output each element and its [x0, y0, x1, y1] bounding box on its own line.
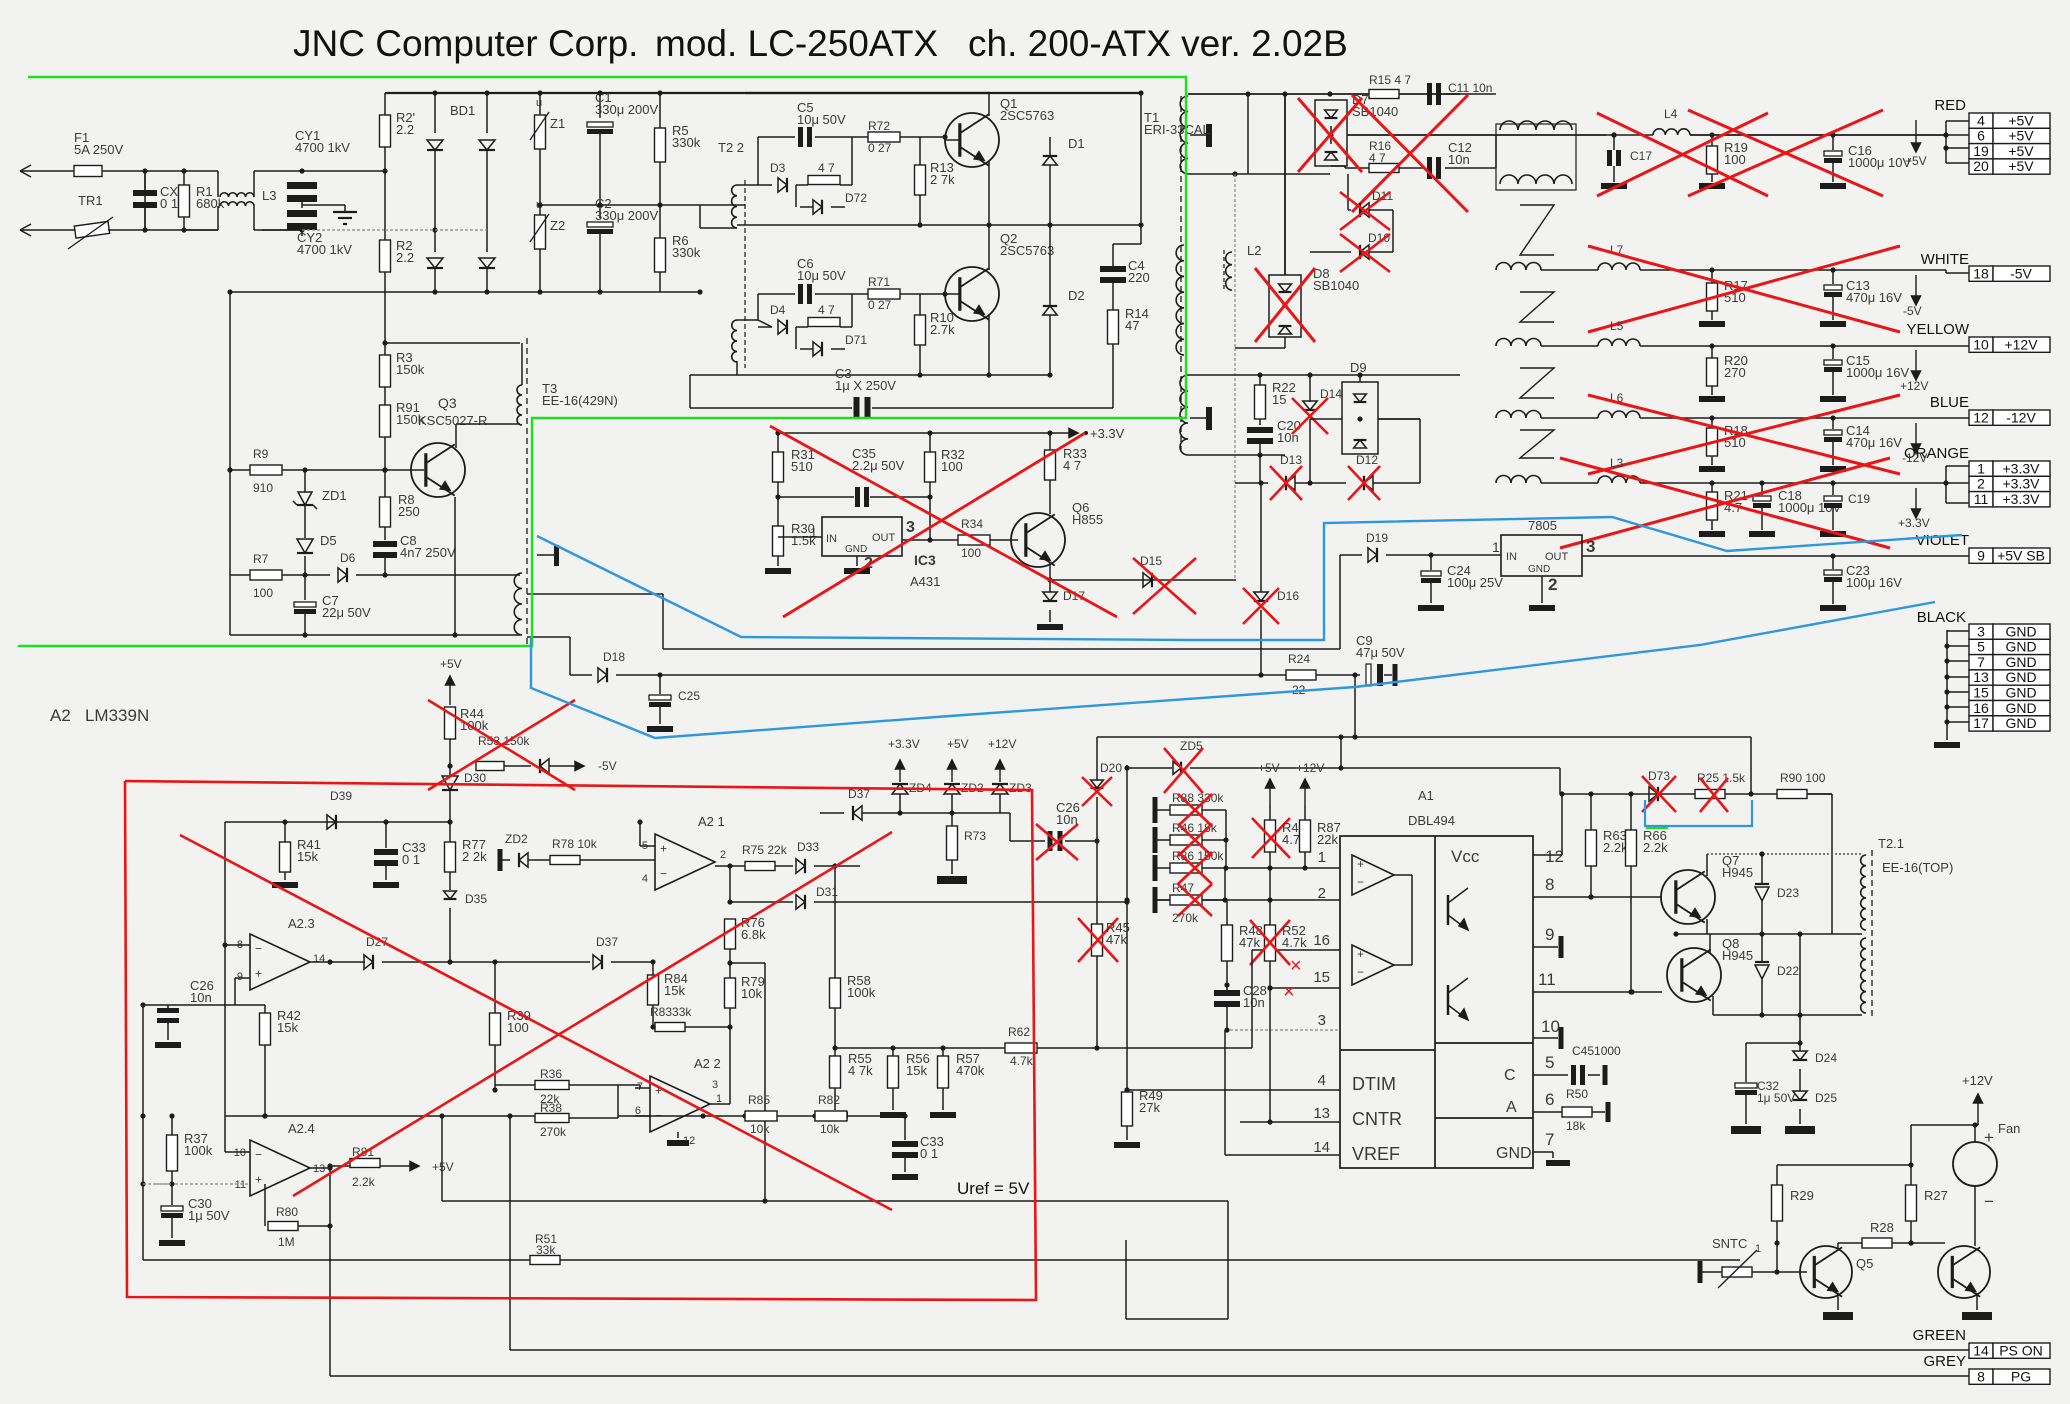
svg-text:8: 8 [1545, 875, 1554, 894]
svg-text:Fan: Fan [1998, 1121, 2020, 1136]
svg-text:CNTR: CNTR [1352, 1109, 1402, 1129]
svg-text:×: × [1283, 981, 1295, 1003]
svg-text:270: 270 [1724, 365, 1746, 380]
svg-text:9: 9 [1977, 547, 1985, 563]
svg-text:510: 510 [791, 459, 813, 474]
svg-text:+5V: +5V [2008, 112, 2034, 128]
svg-text:C11 10n: C11 10n [1448, 81, 1492, 95]
svg-text:DBL494: DBL494 [1408, 813, 1455, 828]
svg-text:R36: R36 [540, 1067, 562, 1081]
svg-text:D18: D18 [603, 650, 625, 664]
svg-text:100: 100 [253, 586, 273, 600]
svg-text:×: × [1290, 955, 1302, 977]
svg-text:D35: D35 [465, 892, 487, 906]
svg-text:R50: R50 [1566, 1087, 1588, 1101]
svg-text:PG: PG [2011, 1368, 2031, 1384]
svg-text:−: − [255, 1147, 262, 1161]
svg-text:D33: D33 [797, 840, 819, 854]
svg-text:2SC5763: 2SC5763 [1000, 108, 1054, 123]
svg-text:1: 1 [1318, 849, 1326, 866]
svg-text:u: u [536, 97, 542, 109]
svg-text:-5V: -5V [598, 759, 617, 773]
svg-text:JNC Computer Corp.: JNC Computer Corp. [293, 23, 638, 64]
svg-text:13: 13 [1313, 1105, 1330, 1122]
svg-text:47k: 47k [1239, 935, 1260, 950]
svg-text:R73: R73 [964, 829, 986, 843]
svg-text:L3: L3 [262, 188, 276, 203]
svg-text:2.2μ 50V: 2.2μ 50V [852, 458, 905, 473]
svg-text:R78 10k: R78 10k [552, 837, 598, 851]
svg-text:H855: H855 [1072, 512, 1103, 527]
svg-text:T2 2: T2 2 [718, 140, 744, 155]
svg-text:TR1: TR1 [78, 193, 103, 208]
svg-text:A431: A431 [910, 574, 940, 589]
svg-text:R86 150k: R86 150k [1172, 849, 1224, 863]
svg-text:OUT: OUT [872, 532, 896, 544]
svg-text:-5V: -5V [2010, 265, 2032, 281]
svg-text:47: 47 [1125, 318, 1139, 333]
svg-text:D12: D12 [1356, 453, 1378, 467]
svg-text:11: 11 [235, 1179, 246, 1191]
svg-text:10n: 10n [190, 990, 212, 1005]
svg-text:D39: D39 [330, 789, 352, 803]
svg-text:1: 1 [1492, 539, 1500, 555]
svg-text:R28: R28 [1870, 1220, 1894, 1235]
svg-text:GND: GND [2005, 715, 2036, 731]
svg-text:14: 14 [313, 953, 325, 965]
svg-text:+: + [660, 841, 667, 855]
svg-text:12: 12 [1973, 409, 1989, 425]
svg-text:D5: D5 [320, 533, 337, 548]
svg-text:7: 7 [1977, 654, 1985, 670]
svg-text:+5V SB: +5V SB [1997, 547, 2045, 563]
svg-text:R29: R29 [1790, 1188, 1814, 1203]
svg-text:EE-16(TOP): EE-16(TOP) [1882, 860, 1953, 875]
svg-text:+: + [255, 1173, 262, 1187]
svg-text:11: 11 [1538, 970, 1556, 989]
svg-text:BD1: BD1 [450, 103, 475, 118]
svg-text:R90 100: R90 100 [1780, 771, 1826, 785]
svg-text:14: 14 [1313, 1139, 1330, 1156]
svg-text:15k: 15k [664, 983, 685, 998]
svg-text:D17: D17 [1063, 589, 1085, 603]
svg-text:+5V: +5V [2008, 128, 2034, 144]
svg-text:470μ 16V: 470μ 16V [1846, 435, 1902, 450]
svg-text:+3.3V: +3.3V [888, 737, 920, 751]
svg-text:10: 10 [1541, 1017, 1560, 1036]
svg-text:4 7k: 4 7k [848, 1063, 873, 1078]
svg-text:100: 100 [941, 459, 963, 474]
svg-text:4: 4 [1977, 112, 1985, 128]
svg-text:L3: L3 [1610, 456, 1624, 470]
svg-text:1μ 50V: 1μ 50V [1757, 1091, 1795, 1105]
svg-text:D2: D2 [1068, 288, 1085, 303]
svg-text:2SC5763: 2SC5763 [1000, 243, 1054, 258]
svg-text:10k: 10k [820, 1122, 840, 1136]
svg-text:ch. 200-ATX ver. 2.02B: ch. 200-ATX ver. 2.02B [968, 23, 1348, 64]
svg-text:R72: R72 [868, 119, 890, 133]
svg-text:4n7 250V: 4n7 250V [400, 545, 456, 560]
svg-text:10: 10 [1973, 336, 1989, 352]
svg-text:A2 2: A2 2 [694, 1056, 721, 1071]
svg-text:7805: 7805 [1528, 518, 1557, 533]
svg-text:2 2k: 2 2k [462, 849, 487, 864]
svg-text:330μ 200V: 330μ 200V [595, 102, 658, 117]
svg-text:22k: 22k [1317, 832, 1338, 847]
svg-text:15k: 15k [297, 849, 318, 864]
svg-text:RED: RED [1934, 97, 1966, 114]
svg-text:C451000: C451000 [1572, 1044, 1621, 1058]
svg-text:10: 10 [234, 1147, 246, 1159]
svg-text:WHITE: WHITE [1921, 251, 1969, 268]
svg-text:+3.3V: +3.3V [1898, 516, 1930, 530]
svg-text:YELLOW: YELLOW [1906, 321, 1969, 338]
svg-text:−: − [1357, 965, 1364, 979]
svg-text:5: 5 [1545, 1053, 1554, 1072]
svg-text:GND: GND [2005, 669, 2036, 685]
svg-text:4 7: 4 7 [818, 303, 835, 317]
svg-text:+12V: +12V [2004, 336, 2038, 352]
svg-text:9: 9 [1545, 925, 1554, 944]
svg-text:R8333k: R8333k [650, 1005, 692, 1019]
svg-text:GREY: GREY [1923, 1353, 1966, 1370]
svg-text:16: 16 [1973, 700, 1989, 716]
svg-text:10μ 50V: 10μ 50V [797, 112, 846, 127]
svg-text:6.8k: 6.8k [741, 927, 766, 942]
svg-text:A: A [1506, 1099, 1517, 1116]
svg-text:KSC5027-R: KSC5027-R [418, 413, 487, 428]
svg-text:D22: D22 [1777, 964, 1799, 978]
svg-text:0 27: 0 27 [868, 141, 892, 155]
svg-text:2.2k: 2.2k [1603, 840, 1628, 855]
svg-text:1000μ 16V: 1000μ 16V [1846, 365, 1909, 380]
svg-text:+3.3V: +3.3V [2003, 476, 2041, 492]
svg-text:2: 2 [1548, 575, 1557, 594]
svg-text:470μ 16V: 470μ 16V [1846, 290, 1902, 305]
svg-text:4700 1kV: 4700 1kV [297, 242, 352, 257]
svg-text:GND: GND [2005, 654, 2036, 670]
svg-text:Vcc: Vcc [1451, 847, 1480, 866]
svg-text:8: 8 [1977, 1368, 1985, 1384]
svg-text:10k: 10k [741, 986, 762, 1001]
svg-text:100k: 100k [847, 985, 876, 1000]
svg-text:D73: D73 [1648, 769, 1670, 783]
svg-text:6: 6 [1977, 128, 1985, 144]
svg-text:+3.3V: +3.3V [2003, 491, 2041, 507]
svg-text:4 7: 4 7 [818, 161, 835, 175]
svg-text:33k: 33k [536, 1243, 556, 1257]
svg-text:C19: C19 [1848, 492, 1870, 506]
svg-text:Z2: Z2 [550, 218, 565, 233]
svg-text:D37: D37 [596, 935, 618, 949]
svg-text:470k: 470k [956, 1063, 985, 1078]
svg-text:9: 9 [237, 971, 243, 983]
svg-text:27k: 27k [1139, 1100, 1160, 1115]
svg-text:A2.3: A2.3 [288, 916, 315, 931]
svg-text:2.2: 2.2 [396, 250, 414, 265]
svg-text:R88 330k: R88 330k [1172, 791, 1224, 805]
svg-text:2: 2 [1977, 476, 1985, 492]
svg-text:47μ 50V: 47μ 50V [1356, 645, 1405, 660]
svg-text:D25: D25 [1815, 1091, 1837, 1105]
svg-text:15: 15 [1973, 685, 1989, 701]
svg-text:R24: R24 [1288, 652, 1310, 666]
svg-text:1M: 1M [278, 1235, 295, 1249]
svg-text:10n: 10n [1243, 995, 1265, 1010]
svg-text:15: 15 [1272, 392, 1286, 407]
svg-text:A1: A1 [1418, 788, 1434, 803]
svg-text:330k: 330k [672, 245, 701, 260]
svg-text:D16: D16 [1277, 589, 1299, 603]
svg-text:2.2: 2.2 [396, 122, 414, 137]
svg-text:+3.3V: +3.3V [2003, 460, 2041, 476]
svg-text:15: 15 [1313, 969, 1330, 986]
svg-text:D1: D1 [1068, 136, 1085, 151]
svg-text:−: − [660, 867, 667, 881]
svg-text:D14: D14 [1320, 387, 1342, 401]
svg-text:A2 1: A2 1 [698, 814, 725, 829]
svg-text:100: 100 [1724, 152, 1746, 167]
svg-text:4: 4 [642, 873, 648, 885]
svg-text:+12V: +12V [1962, 1073, 1993, 1088]
svg-text:3: 3 [712, 1079, 718, 1091]
svg-text:5A 250V: 5A 250V [74, 142, 123, 157]
svg-text:C25: C25 [678, 689, 700, 703]
svg-text:IN: IN [1506, 551, 1517, 563]
svg-text:2.2k: 2.2k [1643, 840, 1668, 855]
svg-text:SB1040: SB1040 [1313, 278, 1359, 293]
svg-text:GREEN: GREEN [1913, 1327, 1966, 1344]
svg-text:L4: L4 [1664, 107, 1678, 121]
svg-text:D6: D6 [340, 551, 356, 565]
svg-text:0 1: 0 1 [920, 1146, 938, 1161]
svg-text:220: 220 [1128, 270, 1150, 285]
svg-text:270k: 270k [540, 1125, 567, 1139]
svg-text:D24: D24 [1815, 1051, 1837, 1065]
svg-text:BLUE: BLUE [1930, 394, 1969, 411]
svg-text:−: − [255, 941, 262, 955]
svg-text:GND: GND [2005, 623, 2036, 639]
svg-text:16: 16 [1313, 932, 1330, 949]
svg-text:R80: R80 [276, 1205, 298, 1219]
svg-text:19: 19 [1973, 143, 1989, 159]
svg-text:D23: D23 [1777, 886, 1799, 900]
svg-text:T2.1: T2.1 [1878, 836, 1904, 851]
svg-text:150k: 150k [396, 362, 425, 377]
svg-text:11: 11 [1974, 491, 1989, 507]
svg-text:10n: 10n [1448, 152, 1470, 167]
svg-text:+5V: +5V [2008, 158, 2034, 174]
svg-text:+5V: +5V [1258, 761, 1280, 775]
svg-text:250: 250 [398, 504, 420, 519]
svg-text:−: − [1357, 875, 1364, 889]
svg-text:0 27: 0 27 [868, 298, 892, 312]
svg-text:+5V: +5V [440, 657, 462, 671]
svg-text:+: + [1984, 1128, 1994, 1147]
svg-text:10n: 10n [1056, 812, 1078, 827]
svg-text:R82: R82 [818, 1093, 840, 1107]
svg-text:H945: H945 [1722, 865, 1753, 880]
svg-text:100: 100 [961, 546, 981, 560]
svg-text:+5V: +5V [432, 1160, 454, 1174]
svg-text:Q5: Q5 [1856, 1256, 1873, 1271]
svg-text:100μ 16V: 100μ 16V [1846, 575, 1902, 590]
svg-text:13: 13 [1973, 669, 1989, 685]
svg-text:R7: R7 [253, 552, 269, 566]
svg-text:12: 12 [1545, 847, 1564, 866]
svg-text:4 7: 4 7 [1063, 458, 1081, 473]
svg-text:2.2k: 2.2k [352, 1175, 376, 1189]
svg-text:100: 100 [507, 1020, 529, 1035]
svg-text:17: 17 [1973, 715, 1989, 731]
svg-text:ZD2: ZD2 [505, 832, 528, 846]
svg-text:GND: GND [1528, 564, 1550, 575]
svg-text:7: 7 [1545, 1130, 1554, 1149]
svg-text:100k: 100k [460, 718, 489, 733]
svg-text:+5V: +5V [2008, 143, 2034, 159]
svg-text:Z1: Z1 [550, 116, 565, 131]
svg-text:H945: H945 [1722, 948, 1753, 963]
svg-text:ZD1: ZD1 [322, 488, 347, 503]
svg-text:1μ X 250V: 1μ X 250V [835, 378, 896, 393]
svg-text:2: 2 [720, 849, 726, 861]
svg-text:22μ 50V: 22μ 50V [322, 605, 371, 620]
svg-text:14: 14 [1973, 1342, 1989, 1358]
svg-text:1: 1 [716, 1093, 722, 1105]
svg-text:R15 4 7: R15 4 7 [1369, 73, 1411, 87]
svg-text:C17: C17 [1630, 149, 1652, 163]
svg-text:−: − [1984, 1192, 1994, 1211]
svg-text:3: 3 [1318, 1012, 1326, 1029]
svg-text:270k: 270k [1172, 911, 1199, 925]
svg-text:1μ 50V: 1μ 50V [188, 1208, 230, 1223]
svg-text:4.7k: 4.7k [1282, 935, 1307, 950]
svg-text:GND: GND [2005, 685, 2036, 701]
svg-text:D19: D19 [1366, 531, 1388, 545]
svg-text:18k: 18k [1566, 1119, 1586, 1133]
svg-text:100μ 25V: 100μ 25V [1447, 575, 1503, 590]
svg-text:ERI-33CAL: ERI-33CAL [1144, 122, 1210, 137]
svg-text:+5V: +5V [1905, 154, 1927, 168]
svg-text:2 7k: 2 7k [930, 172, 955, 187]
svg-text:OUT: OUT [1545, 551, 1569, 563]
svg-text:330μ 200V: 330μ 200V [595, 208, 658, 223]
svg-text:IC3: IC3 [914, 552, 936, 568]
svg-text:Q3: Q3 [438, 395, 457, 411]
svg-text:D3: D3 [770, 161, 786, 175]
svg-text:10μ 50V: 10μ 50V [797, 268, 846, 283]
svg-text:+12V: +12V [1296, 761, 1324, 775]
svg-text:GND: GND [2005, 639, 2036, 655]
svg-text:15k: 15k [906, 1063, 927, 1078]
svg-text:VREF: VREF [1352, 1144, 1400, 1164]
svg-text:20: 20 [1973, 158, 1989, 174]
svg-text:4.7k: 4.7k [1010, 1054, 1034, 1068]
svg-text:GND: GND [1496, 1145, 1532, 1162]
svg-text:330k: 330k [672, 135, 701, 150]
svg-text:0 1: 0 1 [402, 852, 420, 867]
svg-text:+: + [1357, 947, 1364, 961]
svg-text:D71: D71 [845, 333, 867, 347]
svg-text:EE-16(429N): EE-16(429N) [542, 393, 618, 408]
svg-text:GND: GND [2005, 700, 2036, 716]
svg-text:SNTC: SNTC [1712, 1236, 1747, 1251]
svg-text:D4: D4 [770, 303, 786, 317]
svg-text:ZD2: ZD2 [961, 781, 984, 795]
svg-text:5: 5 [1977, 639, 1985, 655]
svg-text:R85: R85 [748, 1093, 770, 1107]
svg-text:3: 3 [1977, 623, 1985, 639]
svg-text:R75 22k: R75 22k [742, 843, 788, 857]
svg-text:47k: 47k [1106, 932, 1127, 947]
svg-text:D30: D30 [464, 771, 486, 785]
svg-text:R9: R9 [253, 447, 269, 461]
svg-text:IN: IN [826, 533, 837, 545]
svg-text:+5V: +5V [947, 737, 969, 751]
svg-text:D13: D13 [1280, 453, 1302, 467]
svg-text:6: 6 [1545, 1090, 1554, 1109]
svg-text:L2: L2 [1247, 243, 1261, 258]
svg-text:+12V: +12V [1900, 379, 1928, 393]
svg-text:+12V: +12V [988, 737, 1016, 751]
svg-text:L5: L5 [1610, 319, 1624, 333]
svg-text:-5V: -5V [1903, 304, 1922, 318]
svg-text:4: 4 [1318, 1072, 1326, 1089]
svg-text:3: 3 [1586, 537, 1595, 556]
svg-text:3: 3 [906, 519, 915, 536]
svg-text:Uref = 5V: Uref = 5V [957, 1179, 1030, 1198]
svg-text:-12V: -12V [2006, 409, 2036, 425]
svg-text:+3.3V: +3.3V [1090, 426, 1125, 441]
svg-text:0 1: 0 1 [160, 196, 178, 211]
svg-text:ZD3: ZD3 [1009, 781, 1032, 795]
svg-text:100k: 100k [184, 1143, 213, 1158]
svg-text:1: 1 [1755, 1243, 1761, 1255]
svg-text:PS ON: PS ON [1999, 1342, 2043, 1358]
svg-text:R62: R62 [1008, 1025, 1030, 1039]
svg-text:D20: D20 [1100, 761, 1122, 775]
svg-text:15k: 15k [277, 1020, 298, 1035]
svg-text:1000μ 10V: 1000μ 10V [1848, 155, 1911, 170]
svg-text:A2.4: A2.4 [288, 1121, 315, 1136]
svg-text:A2 LM339N: A2 LM339N [50, 706, 149, 725]
svg-text:+: + [255, 967, 262, 981]
svg-text:2.7k: 2.7k [930, 322, 955, 337]
svg-text:D9: D9 [1350, 360, 1367, 375]
svg-text:GND: GND [845, 544, 867, 555]
svg-text:18: 18 [1973, 265, 1989, 281]
svg-text:1: 1 [1977, 460, 1985, 476]
svg-text:+: + [1357, 857, 1364, 871]
svg-text:13: 13 [313, 1163, 325, 1175]
svg-text:4700 1kV: 4700 1kV [295, 140, 350, 155]
svg-text:C: C [1504, 1067, 1516, 1084]
svg-text:910: 910 [253, 481, 273, 495]
svg-text:DTIM: DTIM [1352, 1074, 1396, 1094]
svg-text:R27: R27 [1924, 1188, 1948, 1203]
svg-text:6: 6 [635, 1105, 641, 1117]
svg-text:D72: D72 [845, 191, 867, 205]
svg-text:4 7: 4 7 [1369, 151, 1386, 165]
svg-text:-12V: -12V [1902, 451, 1927, 465]
svg-text:BLACK: BLACK [1917, 609, 1966, 626]
svg-text:R71: R71 [868, 275, 890, 289]
svg-text:mod. LC-250ATX: mod. LC-250ATX [655, 23, 938, 64]
svg-text:R34: R34 [961, 517, 983, 531]
svg-text:10k: 10k [750, 1122, 770, 1136]
